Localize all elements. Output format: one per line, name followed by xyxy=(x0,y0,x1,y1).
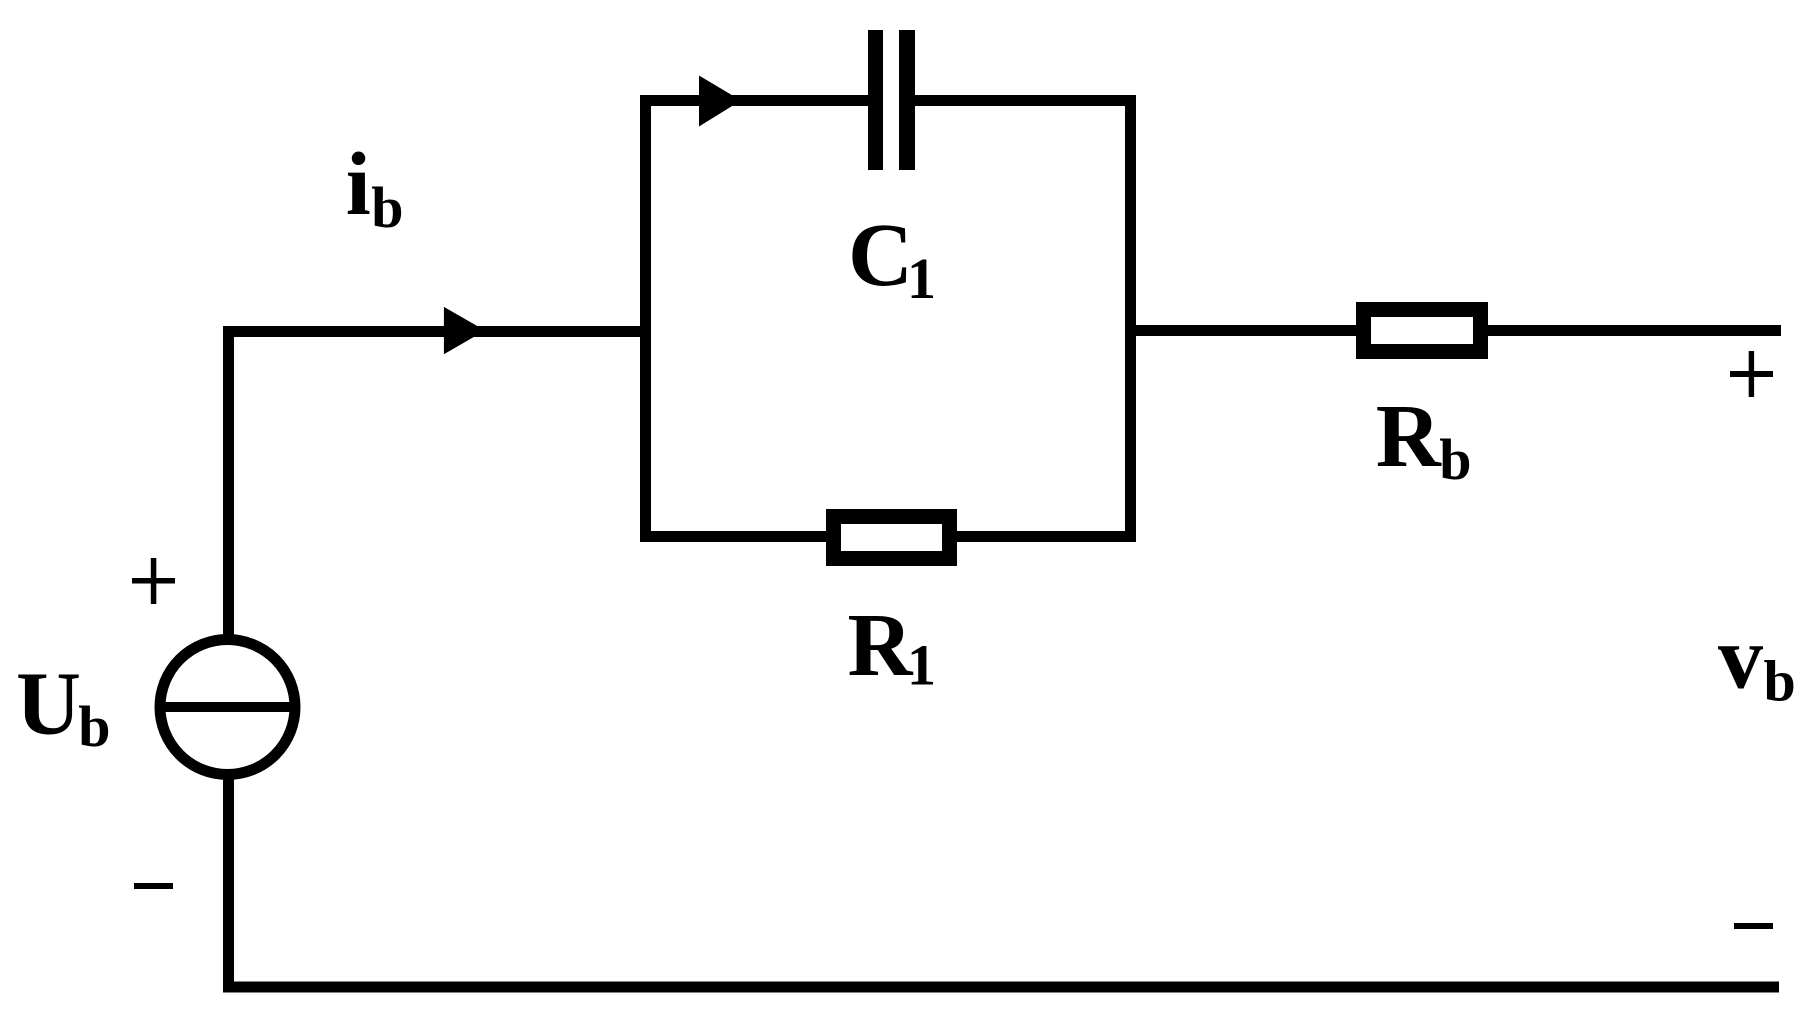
svg-text:1: 1 xyxy=(907,246,936,311)
svg-text:1: 1 xyxy=(907,633,936,698)
wire: RC box left vertical xyxy=(640,95,651,542)
resistor Rb body xyxy=(1364,310,1481,352)
voltage source Ub circle xyxy=(160,640,295,775)
arrow: current direction on capacitor branch xyxy=(699,76,741,127)
capacitor C1 right plate xyxy=(899,30,915,170)
svg-text:R: R xyxy=(1376,387,1442,486)
wire: RC box top wire right segment (from capacitor right plate) xyxy=(908,95,1136,106)
wire: RC box right vertical xyxy=(1125,95,1136,542)
minus terminal of source Ub xyxy=(134,883,173,889)
wire: from resistor Rb to output plus terminal xyxy=(1488,325,1781,336)
svg-text:b: b xyxy=(1764,649,1796,714)
resistor R1 body xyxy=(834,517,950,559)
voltage source Ub chord line xyxy=(162,702,293,712)
wire: RC box bottom wire xyxy=(640,531,1136,542)
wire: bottom return wire from source to output minus terminal xyxy=(223,982,1779,993)
svg-text:U: U xyxy=(16,655,81,754)
svg-text:i: i xyxy=(346,135,371,234)
svg-text:C: C xyxy=(848,206,913,305)
wire: main horizontal wire from source top to RC box (node A) xyxy=(223,326,651,337)
arrow: current ib direction on main wire xyxy=(444,307,485,354)
plus terminal of source Ub xyxy=(132,578,175,584)
capacitor C1 left plate xyxy=(868,30,883,170)
plus terminal of output vb xyxy=(1730,371,1773,377)
wire: left vertical wire through source Ub xyxy=(223,326,234,992)
svg-text:b: b xyxy=(1439,427,1471,492)
wire: from RC box to resistor Rb xyxy=(1136,325,1356,336)
wire: RC box top wire left segment (to capacitor left plate) xyxy=(640,95,875,106)
svg-text:b: b xyxy=(371,175,403,240)
minus terminal of output vb xyxy=(1734,923,1773,929)
svg-text:R: R xyxy=(848,596,914,695)
svg-text:b: b xyxy=(78,694,110,759)
svg-text:v: v xyxy=(1718,609,1763,708)
